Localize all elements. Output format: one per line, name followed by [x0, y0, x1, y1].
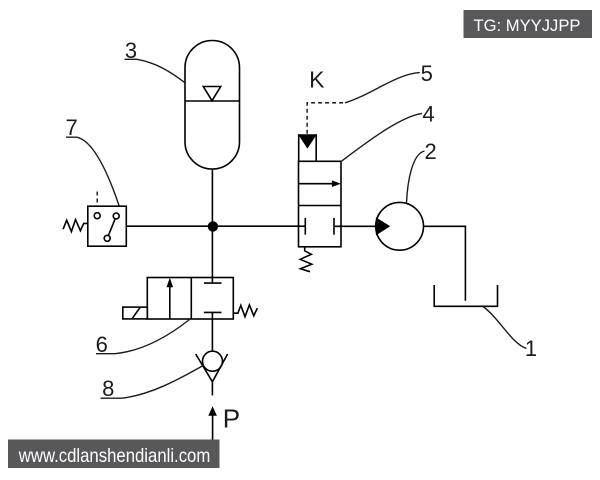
svg-text:1: 1: [525, 336, 537, 361]
svg-text:www.cdlanshendianli.com: www.cdlanshendianli.com: [18, 445, 210, 467]
svg-text:5: 5: [421, 61, 433, 86]
svg-text:2: 2: [424, 139, 436, 164]
svg-text:8: 8: [102, 376, 114, 401]
svg-text:4: 4: [422, 102, 434, 127]
svg-text:K: K: [309, 67, 325, 93]
svg-text:3: 3: [125, 38, 137, 63]
svg-text:P: P: [223, 404, 240, 434]
svg-text:7: 7: [65, 115, 77, 140]
svg-text:TG: MYYJJPP: TG: MYYJJPP: [474, 16, 581, 35]
svg-text:6: 6: [96, 332, 108, 357]
